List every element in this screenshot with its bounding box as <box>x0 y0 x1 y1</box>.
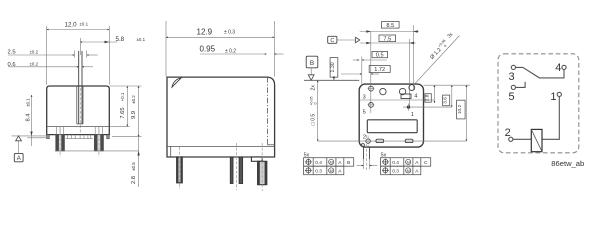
schematic dashed border <box>498 54 579 153</box>
svg-text:□ 0.5: □ 0.5 <box>310 114 316 126</box>
corner feet <box>47 135 50 139</box>
pin hole 3 <box>368 86 375 91</box>
pin 1 terminal <box>557 92 561 96</box>
side pin 1 <box>177 147 183 189</box>
pin hole 2 <box>361 136 370 147</box>
slot under pin 4 <box>401 94 411 99</box>
relay body outline front view <box>47 86 110 135</box>
svg-text:M: M <box>330 169 333 173</box>
svg-text:±0.5: ±0.5 <box>131 162 136 171</box>
right pin front view <box>94 127 103 157</box>
boxed dimension 7.5 <box>360 35 416 44</box>
svg-text:±0.1: ±0.1 <box>80 21 89 26</box>
svg-text:2x: 2x <box>311 85 317 91</box>
dimension 5.8 +-0.1 pin to edge <box>80 36 145 55</box>
svg-text:8.5: 8.5 <box>386 23 394 29</box>
svg-text:86etw_ab: 86etw_ab <box>551 159 584 168</box>
side blade pin <box>251 143 266 191</box>
svg-text:1: 1 <box>550 91 556 103</box>
svg-text:2.8: 2.8 <box>424 94 430 101</box>
relay body outline side view <box>167 77 275 157</box>
svg-text:5: 5 <box>363 110 366 116</box>
svg-text:3: 3 <box>363 94 366 100</box>
svg-text:12.9: 12.9 <box>197 27 213 36</box>
svg-text:M: M <box>407 161 410 165</box>
datum B flag <box>304 56 359 80</box>
pin 3 terminal <box>511 65 515 69</box>
row line B through pin 1 <box>403 106 452 108</box>
extension line pin1 column <box>409 39 411 107</box>
relay coil <box>531 129 542 151</box>
dimension 2.5 +-0.2 <box>8 49 98 57</box>
movable contact blade <box>516 67 564 78</box>
inner wall bottom-left <box>170 146 172 157</box>
boxed dimension 1.30 <box>330 58 338 81</box>
standoff strip ticks <box>66 135 93 139</box>
svg-text:±0.2: ±0.2 <box>30 49 39 54</box>
dimension 12.9 +-0.3 overall width <box>166 21 274 77</box>
svg-text:12.0: 12.0 <box>65 21 78 28</box>
boxed dimension 1.72 <box>341 66 390 75</box>
pin labels bottom view <box>363 93 418 140</box>
dimension 0.6 +-0.2 pin thickness <box>8 62 94 68</box>
bottom slot left <box>376 139 384 142</box>
svg-text:B: B <box>310 60 314 67</box>
dimension 9.9 +-0.2 right <box>109 86 141 137</box>
bottom slot right <box>405 139 413 142</box>
svg-text:8.4: 8.4 <box>26 113 32 122</box>
extension line pin3/5 column <box>370 32 372 114</box>
boxed dimension 10.2 vertical <box>457 85 467 141</box>
svg-text:1.72: 1.72 <box>374 67 385 73</box>
svg-text:0.3: 0.3 <box>392 169 399 175</box>
pin hole 4 <box>409 85 415 91</box>
wire pin2 to coil <box>513 138 531 140</box>
wire pin1 to coil <box>542 97 559 140</box>
svg-text:5.8: 5.8 <box>116 36 125 43</box>
svg-text:4: 4 <box>414 93 417 99</box>
svg-text:2: 2 <box>505 127 511 139</box>
GDT frame left 5x <box>304 152 354 174</box>
pin 5 terminal <box>511 85 515 89</box>
cover edge dash-dot line <box>267 77 269 145</box>
dimension 2x square 0.5 pins <box>309 80 317 141</box>
svg-text:M: M <box>330 161 333 165</box>
cover skirt step <box>267 144 274 146</box>
svg-text:±0.1: ±0.1 <box>137 37 146 42</box>
svg-text:1: 1 <box>411 112 414 118</box>
chamfer flag top-left <box>172 78 181 87</box>
svg-text:3: 3 <box>509 71 515 83</box>
row line through pin 2 and slots <box>318 140 467 142</box>
pin 2 stem below body <box>357 135 378 170</box>
svg-text:2.5: 2.5 <box>8 50 16 56</box>
dimension 0.95 +-0.2 cover wall <box>200 45 284 55</box>
svg-text:B: B <box>347 160 350 166</box>
row line A <box>359 99 434 101</box>
svg-text:C: C <box>330 38 334 44</box>
boxed dimension 8.5 <box>360 22 419 33</box>
boss hole right <box>399 88 405 94</box>
svg-text:A: A <box>17 156 21 162</box>
extension line pin4 column <box>412 25 414 90</box>
datum C flag <box>328 36 360 44</box>
svg-text:7.65: 7.65 <box>120 107 126 118</box>
boss hole left <box>380 88 386 94</box>
svg-text:± 0.3: ± 0.3 <box>224 30 235 36</box>
svg-text:3.6: 3.6 <box>442 97 448 104</box>
top reference line right <box>424 84 471 86</box>
pin 4 terminal <box>562 65 566 69</box>
svg-text:2.8: 2.8 <box>131 176 137 184</box>
dimension 8.4 +-0.1 left height <box>12 95 47 146</box>
svg-text:± 0.2: ± 0.2 <box>225 49 236 55</box>
svg-text:9.9: 9.9 <box>131 111 137 119</box>
svg-text:0.95: 0.95 <box>200 45 216 54</box>
seam line side view <box>167 145 275 147</box>
pin 2 terminal <box>509 137 513 141</box>
left pin front view <box>56 127 65 157</box>
svg-text:2: 2 <box>363 134 366 140</box>
boxed dimension 2.8 vertical <box>424 85 434 103</box>
pin hole 5 <box>368 103 375 108</box>
svg-text:10.2: 10.2 <box>457 105 463 115</box>
svg-text:+0.1: +0.1 <box>120 92 125 101</box>
pin 5 contact stub <box>516 82 526 88</box>
boxed dimension 3.6 vertical <box>442 85 452 107</box>
body outline bottom view <box>359 84 423 147</box>
svg-text:4: 4 <box>555 62 561 74</box>
dimension 12.0 +-0.1 top width <box>47 21 110 84</box>
pin tip line <box>55 150 139 152</box>
svg-text:M: M <box>407 169 410 173</box>
svg-text:C: C <box>424 160 428 166</box>
svg-text:±0.2: ±0.2 <box>131 95 136 104</box>
svg-text:0.4: 0.4 <box>315 160 322 166</box>
svg-text:0: 0 <box>313 103 317 105</box>
svg-text:7.5: 7.5 <box>383 36 391 42</box>
hole callout 3x dia 1.2 <box>413 31 459 85</box>
big center slot <box>367 120 417 133</box>
pin 1 point <box>407 104 410 111</box>
dimension 7.65 +0.1 right <box>109 86 129 126</box>
svg-text:0.5: 0.5 <box>376 53 384 59</box>
svg-text:±0.2: ±0.2 <box>30 62 39 67</box>
body seam line <box>47 126 110 128</box>
svg-text:0.4: 0.4 <box>392 160 399 166</box>
GDT frame right 5x <box>381 152 431 174</box>
svg-text:±0.1: ±0.1 <box>26 98 31 107</box>
boxed dimension 0.5 wall <box>353 51 388 84</box>
dimension 2.8 +-0.5 pin length <box>131 137 140 187</box>
svg-text:1.30: 1.30 <box>330 62 336 72</box>
datum A flag <box>14 136 23 162</box>
center pin slot <box>77 51 83 133</box>
side pin pair <box>230 143 242 190</box>
svg-text:0.3: 0.3 <box>315 169 322 175</box>
svg-text:5: 5 <box>509 91 515 103</box>
